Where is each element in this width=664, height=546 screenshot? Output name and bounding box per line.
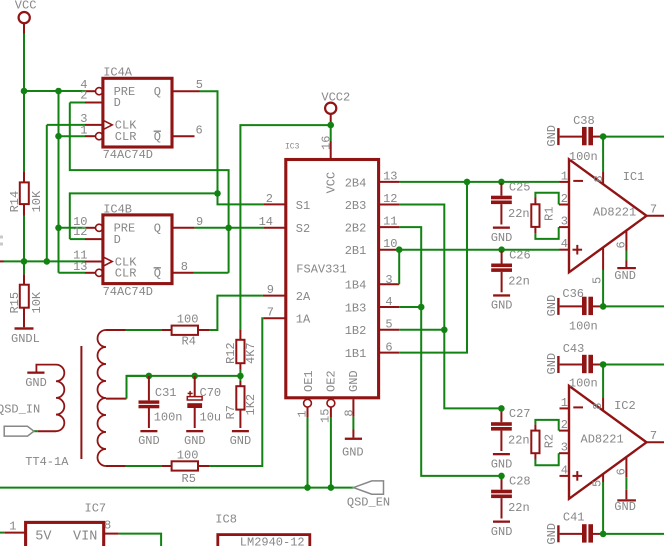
IC3 pin 8 GND: [342, 399, 356, 416]
junction C41/pin5 IC2: [600, 531, 607, 538]
svg-text:Q: Q: [154, 222, 161, 236]
capacitor C36: [545, 287, 603, 334]
svg-text:GND: GND: [138, 434, 160, 448]
resistor R14: [8, 171, 44, 215]
ground C70: [184, 430, 206, 448]
IC4B pin 10 PRE: [73, 215, 103, 232]
svg-text:74AC74D: 74AC74D: [103, 148, 153, 162]
junction Q5/netB: [214, 190, 221, 197]
svg-text:R14: R14: [8, 191, 22, 213]
svg-text:AD8221: AD8221: [593, 206, 636, 220]
svg-text:8: 8: [342, 409, 356, 416]
resistor R15: [8, 274, 44, 327]
svg-text:S2: S2: [296, 222, 310, 236]
svg-text:C38: C38: [573, 114, 595, 128]
IC2 pin 4: [560, 463, 570, 477]
wire enable rail: [0, 487, 354, 489]
resistor R4: [172, 313, 199, 349]
svg-text:1: 1: [561, 396, 568, 410]
transformer core: [80, 346, 82, 459]
svg-text:6: 6: [385, 340, 392, 354]
IC3 pin 10 2B1: [379, 237, 400, 251]
IC7 pin names: [35, 529, 97, 544]
svg-text:TT4-1A: TT4-1A: [25, 455, 69, 469]
wire R4 to 2A: [198, 296, 263, 330]
capacitor C43: [545, 342, 603, 391]
IC7 pin 8: [104, 519, 119, 534]
svg-text:5: 5: [591, 480, 605, 487]
flip-flop IC4A body: [103, 66, 172, 163]
supply symbol VCC: [15, 0, 37, 34]
junction 2B1/1B4: [396, 246, 403, 253]
svg-text:6: 6: [615, 241, 629, 248]
svg-text:10K: 10K: [30, 190, 44, 212]
svg-text:GND: GND: [545, 353, 559, 375]
svg-text:QSD_IN: QSD_IN: [0, 403, 40, 417]
wire net B horizontal: [70, 193, 218, 239]
wire primary bottom to OSD_IN: [34, 430, 56, 432]
wire V- IC1: [603, 305, 664, 307]
svg-text:FSAV331: FSAV331: [296, 263, 346, 277]
svg-text:GND: GND: [614, 269, 636, 283]
IC3 pin 5 1B2: [379, 318, 400, 332]
IC7 pin 1: [0, 520, 26, 534]
IC4A pin 4 PRE: [80, 78, 102, 95]
IC1 minus: [573, 180, 583, 182]
svg-text:8: 8: [104, 519, 111, 533]
svg-text:100n: 100n: [154, 410, 183, 424]
svg-text:10u: 10u: [200, 410, 222, 424]
svg-text:5V: 5V: [35, 529, 52, 544]
svg-text:2: 2: [561, 192, 568, 206]
IC3 pin 14 S2: [259, 215, 286, 229]
svg-text:8: 8: [592, 175, 606, 182]
wire V+ IC1: [603, 136, 664, 138]
svg-text:6: 6: [615, 468, 629, 475]
IC3 pin 6 1B1: [379, 340, 400, 354]
transformer primary winding: [36, 365, 64, 432]
svg-text:IC1: IC1: [623, 170, 645, 184]
junction R12/R7: [237, 373, 244, 380]
IC2 pin 8: [591, 365, 605, 412]
capacitor C26: [491, 248, 531, 292]
wire PRE-CLR column: [58, 91, 60, 273]
IC1 plus: [573, 245, 583, 255]
svg-text:AD8221: AD8221: [581, 433, 624, 447]
svg-text:4: 4: [385, 295, 392, 309]
svg-text:R5: R5: [182, 472, 196, 486]
svg-text:IC4A: IC4A: [103, 66, 133, 80]
wire VCC vertical: [23, 34, 25, 92]
svg-text:C25: C25: [509, 181, 531, 195]
wire net 2B3 to IC2: [399, 205, 501, 409]
wire VCC to R14: [23, 91, 25, 171]
svg-text:1: 1: [295, 410, 309, 417]
junction 2B4/C25: [498, 179, 505, 186]
wire IC7 out: [119, 534, 161, 546]
svg-text:9: 9: [196, 215, 203, 229]
IC1 pin 6 + ground: [614, 230, 636, 283]
svg-text:5: 5: [591, 277, 605, 284]
svg-text:GND: GND: [25, 376, 47, 390]
svg-text:IC2: IC2: [614, 399, 636, 413]
svg-text:OE2: OE2: [324, 370, 338, 392]
junction netA/Q9/S2: [225, 225, 232, 232]
svg-text:C43: C43: [563, 342, 585, 356]
ground C26: [491, 294, 513, 312]
label TT4-1A: [25, 455, 69, 469]
junction C36/pin5: [600, 303, 607, 310]
ground C31: [138, 430, 160, 448]
wire 1B3 stub: [399, 306, 421, 308]
IC2 pin 2: [559, 418, 569, 432]
svg-text:R7: R7: [224, 405, 238, 419]
IC3 pin 13 2B4: [379, 169, 400, 183]
wire net D loop: [70, 103, 229, 273]
IC4B pin 12 D: [73, 225, 103, 239]
ground C28: [491, 521, 513, 539]
wire 1B2 stub: [399, 329, 444, 331]
svg-text:C27: C27: [509, 407, 531, 421]
IC4B pin 13 CLR: [73, 260, 103, 276]
ground C25: [491, 227, 513, 245]
svg-text:7: 7: [267, 306, 274, 320]
IC3 pin names right: [345, 176, 367, 361]
svg-text:IC8: IC8: [215, 513, 237, 527]
transformer secondary winding: [98, 330, 107, 466]
op-amp IC2 body: [569, 386, 647, 499]
svg-text:GND: GND: [347, 370, 361, 392]
IC2 pin 5: [591, 474, 605, 534]
svg-text:IC7: IC7: [85, 502, 107, 516]
IC4A pin 1 CLR: [80, 123, 102, 139]
svg-text:Q: Q: [154, 85, 161, 99]
svg-text:C70: C70: [200, 386, 222, 400]
svg-text:3: 3: [561, 215, 568, 229]
wire secondary top lead: [106, 329, 172, 331]
IC3 pin 12 2B3: [379, 192, 400, 206]
capacitor C28: [491, 475, 531, 519]
connector QSD_EN: [347, 481, 390, 510]
IC3 pin 11 2B2: [379, 215, 400, 229]
svg-text:3: 3: [385, 273, 392, 287]
junction VCC2: [327, 122, 334, 129]
svg-text:OE1: OE1: [302, 370, 316, 392]
IC3 pin 2 S1: [263, 192, 286, 206]
wire secondary tap: [106, 376, 149, 399]
junction 2B3/1B2: [441, 327, 448, 334]
IC3 pin names left: [296, 199, 311, 327]
svg-text:2: 2: [561, 418, 568, 432]
junction CLR: [55, 133, 62, 140]
wire VCC2 to R12 column: [240, 125, 330, 330]
svg-text:74AC74D: 74AC74D: [103, 285, 153, 299]
svg-text:12: 12: [73, 225, 87, 239]
svg-text:CLR: CLR: [115, 266, 137, 280]
svg-text:2B1: 2B1: [345, 244, 367, 258]
op-amp IC1 body: [569, 159, 647, 272]
svg-text:VCC2: VCC2: [321, 90, 350, 104]
svg-text:12: 12: [383, 192, 397, 206]
IC2 pin 3: [559, 441, 569, 455]
capacitor C25: [491, 181, 531, 225]
svg-text:VCC: VCC: [324, 172, 338, 194]
svg-text:22n: 22n: [508, 433, 530, 447]
connector QSD_IN: [0, 403, 40, 437]
svg-text:R4: R4: [182, 335, 196, 349]
svg-text:6: 6: [196, 123, 203, 137]
wire secondary bottom lead: [106, 465, 172, 467]
IC4A pin 5 Q: [172, 78, 203, 92]
svg-text:1B1: 1B1: [345, 347, 367, 361]
IC4B pin 8 Qbar: [172, 260, 194, 274]
IC1 pin 2: [559, 192, 569, 206]
junction PRE10: [55, 225, 62, 232]
svg-text:GND: GND: [184, 434, 206, 448]
wire D12: [70, 238, 85, 240]
wire VCC2 to pin16: [330, 125, 332, 141]
resistor R5: [172, 448, 199, 486]
svg-text:8: 8: [591, 402, 605, 409]
svg-text:4: 4: [561, 463, 568, 477]
svg-text:22n: 22n: [508, 207, 530, 221]
wire netB jog to S1: [218, 193, 264, 204]
wire PRE net horizontal: [24, 90, 85, 92]
resistor R1: [531, 193, 558, 239]
ground R7: [230, 430, 252, 448]
svg-text:GND: GND: [491, 525, 513, 539]
svg-text:1B4: 1B4: [345, 279, 367, 293]
wire D to vertical: [70, 102, 85, 104]
capacitor C27: [491, 407, 531, 451]
IC1 pin 7: [647, 203, 664, 217]
clipped net label left edge: [0, 236, 3, 246]
resistor R12: [224, 330, 258, 376]
wire R5 to 1A: [198, 318, 264, 466]
junction OE2 rail: [328, 484, 335, 491]
svg-text:VIN: VIN: [73, 529, 97, 544]
wire net 2B4: [399, 181, 559, 183]
IC3 pin 7 1A: [264, 306, 286, 320]
IC1 pin 3: [559, 215, 569, 229]
wire V- IC2: [603, 533, 664, 535]
svg-text:C31: C31: [155, 386, 177, 400]
IC1 pin 5: [591, 247, 605, 306]
wire net 2B2 to IC2: [399, 227, 501, 476]
IC IC3 body: [285, 142, 379, 397]
junction R14/CLK node: [21, 258, 28, 265]
junction C43/pin8 IC2: [600, 361, 607, 368]
supply symbol VCC2: [321, 90, 350, 123]
wire analog node: [127, 375, 241, 377]
svg-text:1: 1: [561, 169, 568, 183]
wire OE2 down: [330, 417, 332, 488]
wire net 2B1: [399, 249, 559, 251]
svg-text:7: 7: [650, 429, 657, 443]
IC3 pin 16: [320, 136, 334, 160]
IC2 minus: [573, 406, 583, 408]
svg-text:1: 1: [9, 520, 16, 534]
IC2 pin 7: [647, 429, 664, 443]
svg-text:R15: R15: [8, 292, 22, 314]
svg-text:4: 4: [561, 237, 568, 251]
wire PRE10 to column: [59, 227, 86, 229]
wire CLR to column: [59, 135, 86, 137]
svg-text:2A: 2A: [296, 290, 311, 304]
svg-text:D: D: [114, 96, 121, 110]
wire CLK net horizontal: [0, 260, 85, 262]
ground C27: [491, 453, 513, 471]
svg-text:Q: Q: [154, 130, 161, 144]
IC4B pin names: [114, 222, 161, 281]
svg-text:11: 11: [383, 215, 397, 229]
wire node to R15: [23, 261, 25, 274]
junction 2B4/1B1 column: [464, 179, 471, 186]
IC2 plus: [573, 471, 583, 481]
svg-text:GND: GND: [545, 523, 559, 545]
junction C31: [146, 373, 153, 380]
svg-text:VCC: VCC: [15, 0, 37, 12]
flip-flop IC4B body: [103, 202, 172, 298]
junction C38/pin8: [600, 133, 607, 140]
svg-text:C28: C28: [509, 475, 531, 489]
wire OE1 down: [307, 417, 309, 488]
svg-text:4K7: 4K7: [244, 342, 258, 364]
svg-text:3: 3: [561, 441, 568, 455]
IC3 pin 9 2A: [263, 283, 286, 297]
wire 1B1 column: [399, 182, 467, 353]
svg-text:QSD_EN: QSD_EN: [347, 496, 390, 510]
IC3 pin 4 1B3: [379, 295, 400, 309]
svg-text:100n: 100n: [569, 376, 598, 390]
capacitor C41: [545, 510, 603, 544]
svg-text:2: 2: [266, 192, 273, 206]
ground IC3 GND pin: [342, 417, 364, 460]
svg-text:CLR: CLR: [115, 130, 137, 144]
junction C28/pin4 IC2: [498, 473, 505, 480]
svg-text:22n: 22n: [508, 275, 530, 289]
resistor R7: [224, 376, 258, 428]
wire CLR13: [59, 272, 86, 274]
svg-text:2: 2: [80, 88, 87, 102]
junction 2B2/1B3: [418, 304, 425, 311]
wire Q8bar: [194, 272, 229, 274]
svg-text:9: 9: [267, 283, 274, 297]
svg-text:IC4B: IC4B: [103, 202, 132, 216]
junction C70: [191, 373, 198, 380]
IC3 pin 15 OE2: [319, 399, 335, 423]
svg-text:100: 100: [177, 313, 199, 327]
IC3 pin names vertical: [302, 172, 361, 392]
IC4B pin 9 Q: [172, 215, 203, 229]
IC1 pin 1: [560, 169, 570, 183]
svg-text:R2: R2: [542, 434, 556, 448]
svg-text:GND: GND: [545, 125, 559, 147]
IC4A pin 3 CLK: [80, 112, 112, 130]
svg-text:2B2: 2B2: [345, 222, 367, 236]
svg-text:100n: 100n: [569, 320, 598, 334]
svg-text:100: 100: [177, 448, 199, 462]
IC4B pin 11 CLK: [73, 249, 112, 267]
svg-text:Q: Q: [154, 266, 161, 280]
svg-text:1B3: 1B3: [345, 301, 367, 315]
svg-text:C26: C26: [509, 248, 531, 262]
svg-text:GNDL: GNDL: [11, 332, 40, 346]
svg-text:C36: C36: [562, 287, 584, 301]
svg-text:S1: S1: [296, 199, 310, 213]
junction VCC/PRE: [21, 88, 28, 95]
svg-text:100n: 100n: [569, 150, 598, 164]
svg-text:2B4: 2B4: [345, 176, 367, 190]
svg-text:1A: 1A: [296, 313, 311, 327]
ground primary top: [25, 372, 47, 391]
svg-text:LM2940-12: LM2940-12: [240, 536, 305, 546]
svg-text:2B3: 2B3: [345, 199, 367, 213]
svg-text:10: 10: [383, 237, 397, 251]
svg-text:R12: R12: [224, 342, 238, 364]
svg-text:7: 7: [650, 203, 657, 217]
IC3 pin 1 OE1: [295, 399, 311, 417]
capacitor C70 polarized: [187, 376, 221, 428]
wire V+ IC2: [603, 364, 664, 366]
IC1 pin 8: [592, 137, 606, 185]
junction C27/pin1 IC2: [498, 405, 505, 412]
wire Q9 to S2: [195, 227, 264, 229]
capacitor C31: [139, 376, 183, 428]
wire R14 to node: [23, 216, 25, 262]
IC4A pin names: [114, 85, 161, 144]
svg-text:GND: GND: [545, 295, 559, 317]
svg-text:8: 8: [181, 260, 188, 274]
IC2 pin 6 + ground: [614, 456, 636, 514]
svg-text:GND: GND: [491, 457, 513, 471]
svg-text:GND: GND: [342, 445, 364, 459]
svg-text:C41: C41: [563, 510, 585, 524]
junction CLK column: [44, 258, 51, 265]
ground GNDL: [11, 327, 40, 346]
svg-text:GND: GND: [230, 434, 252, 448]
junction 2B1/C26: [498, 246, 505, 253]
svg-text:16: 16: [320, 136, 334, 150]
svg-text:D: D: [114, 233, 121, 247]
wire Q5 route: [200, 91, 218, 193]
svg-text:1B2: 1B2: [345, 324, 367, 338]
svg-text:13: 13: [383, 169, 397, 183]
IC IC8 body: [215, 513, 309, 546]
svg-text:5: 5: [196, 78, 203, 92]
svg-text:5: 5: [385, 318, 392, 332]
svg-text:10K: 10K: [30, 291, 44, 313]
IC2 pin 1: [560, 396, 570, 410]
IC3 pin 3 1B4: [379, 273, 400, 287]
IC IC7 body: [26, 502, 107, 546]
IC4A pin 6 Qbar: [172, 123, 203, 137]
junction node PRE-CLR column: [55, 88, 62, 95]
svg-text:GND: GND: [614, 500, 636, 514]
svg-text:14: 14: [259, 215, 273, 229]
svg-text:GND: GND: [491, 299, 513, 313]
resistor R2: [531, 420, 558, 465]
IC4A pin 2 D: [80, 88, 103, 102]
wire CLK column: [46, 125, 48, 262]
capacitor C38: [545, 114, 603, 164]
IC1 pin 4: [560, 237, 570, 251]
svg-text:1K2: 1K2: [244, 394, 258, 416]
svg-text:GND: GND: [491, 231, 513, 245]
svg-text:22n: 22n: [508, 501, 530, 515]
junction OE1 rail: [304, 484, 311, 491]
wire CLK to vertical: [47, 124, 85, 126]
